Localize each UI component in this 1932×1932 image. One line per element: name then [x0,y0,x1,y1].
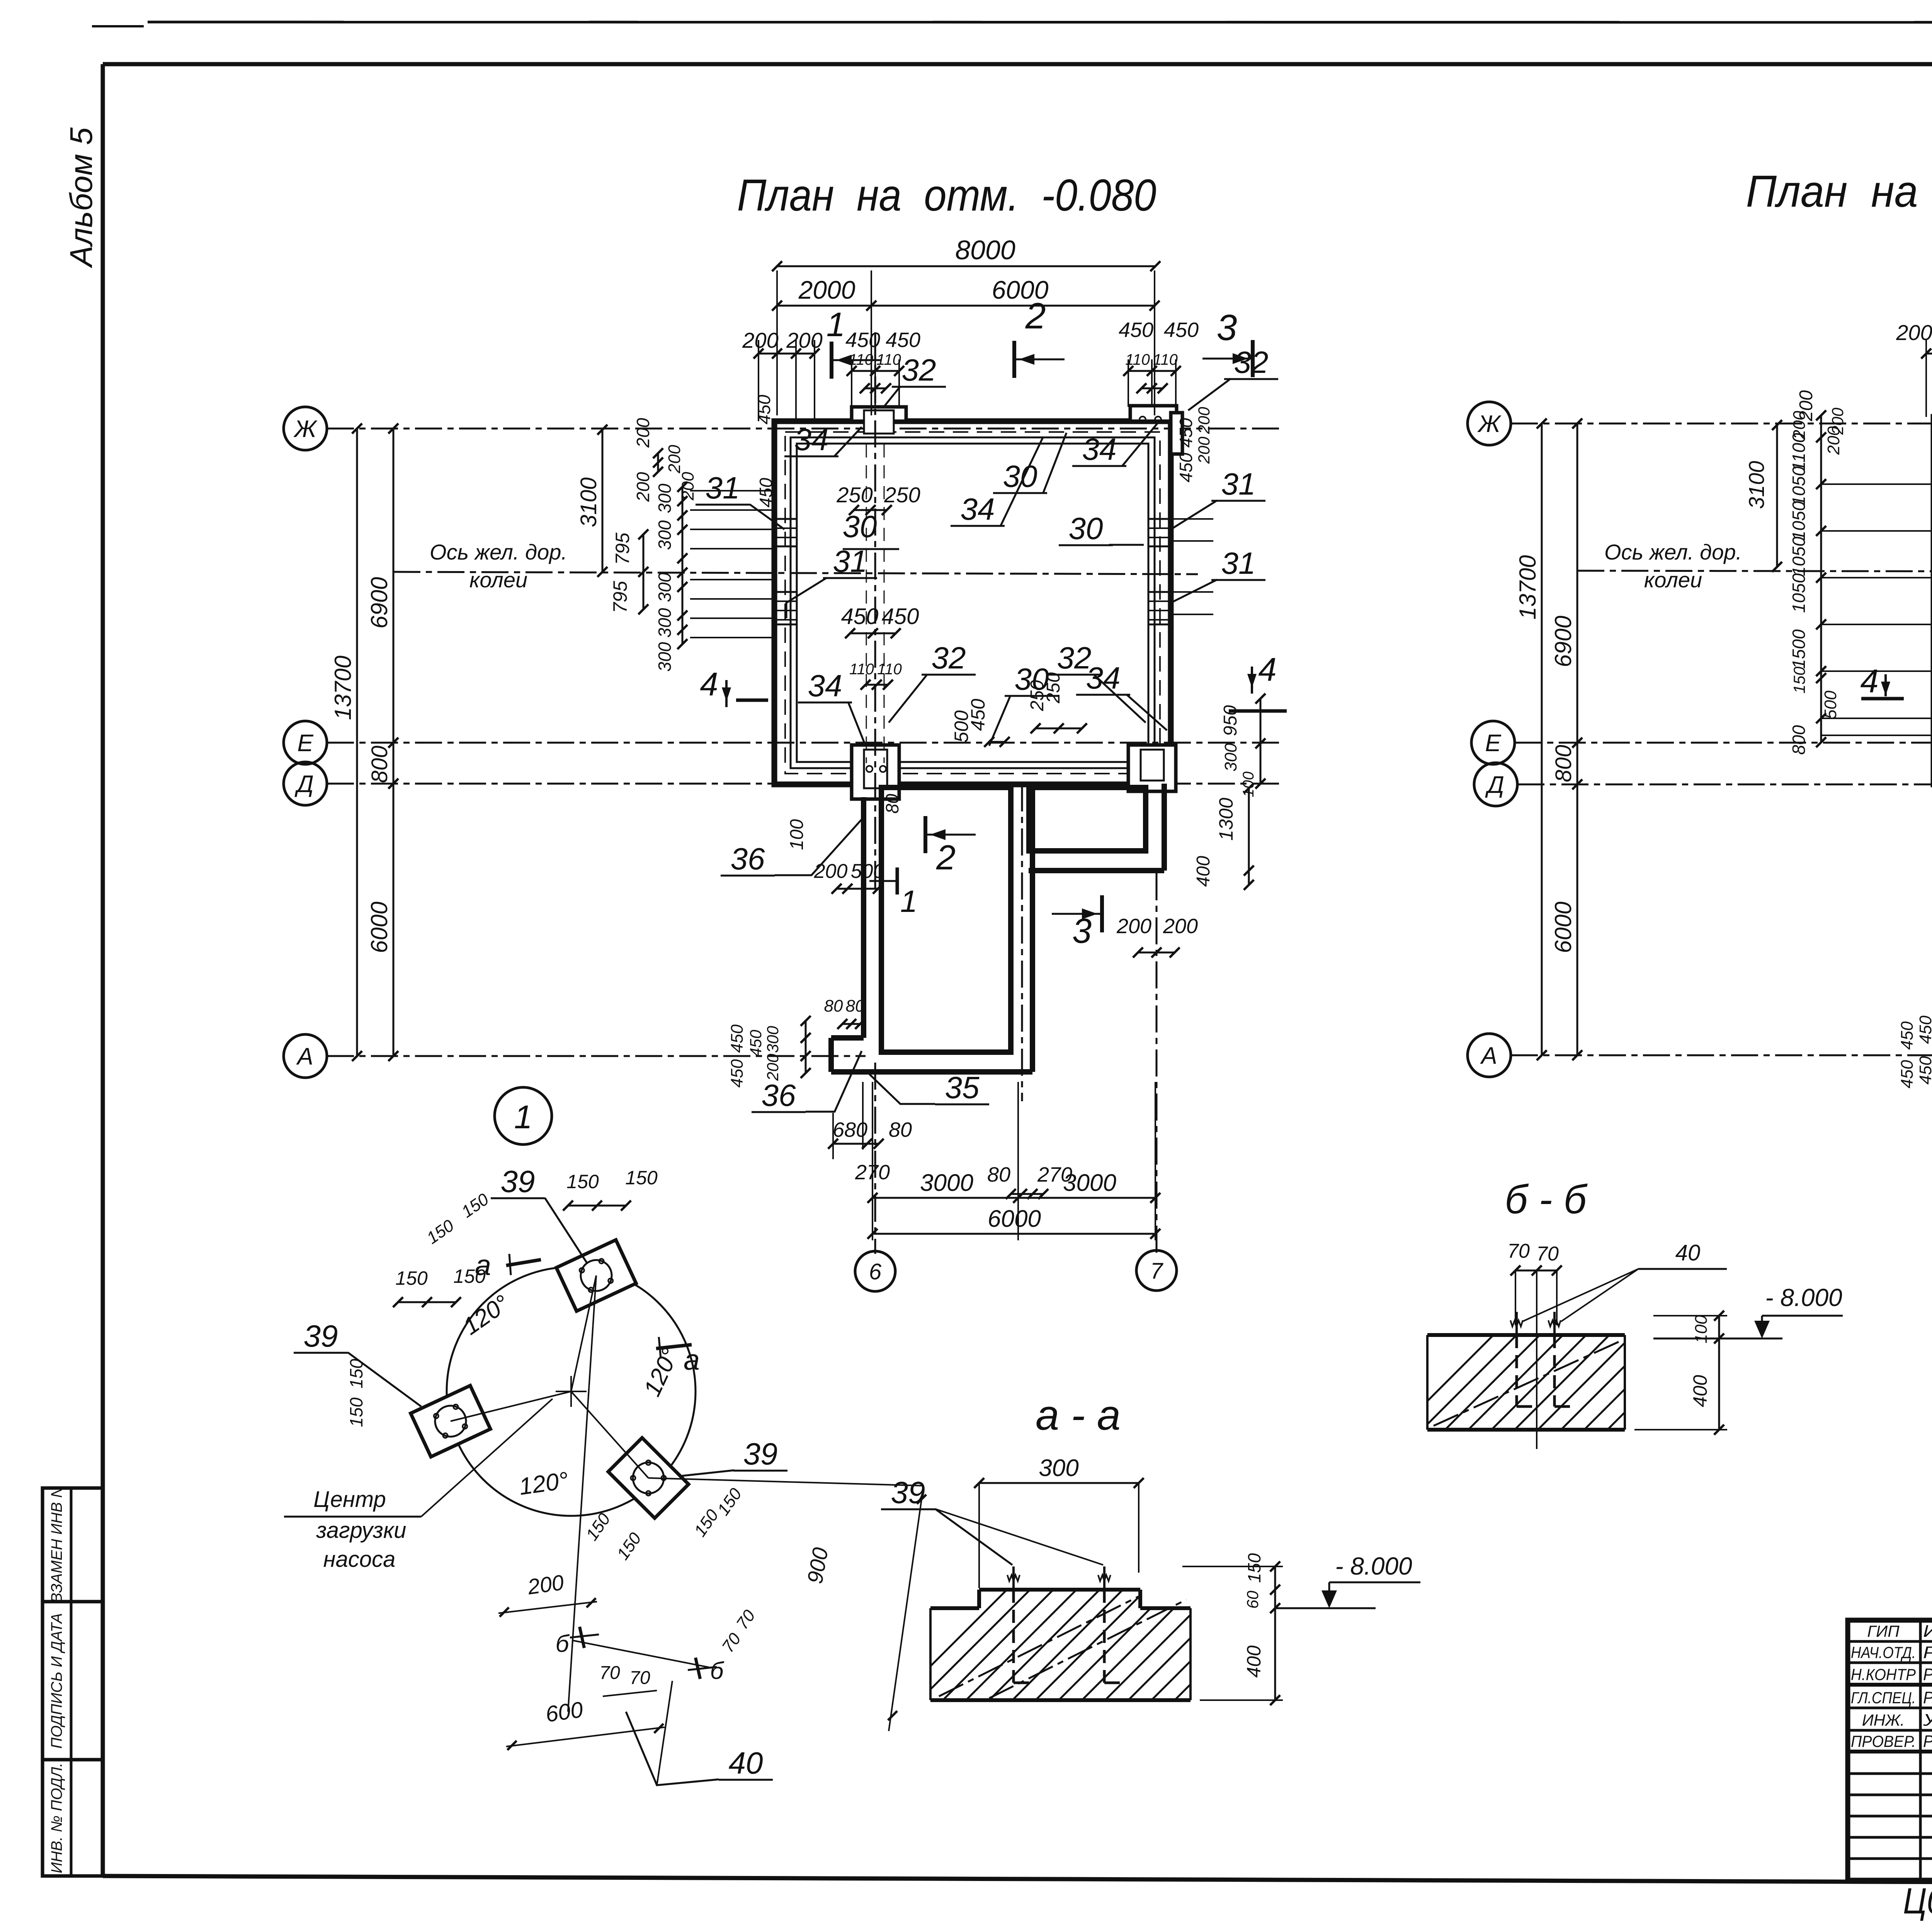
grid6 extension left [874,1063,876,1254]
aa leader2 [935,1509,1103,1565]
dim ticks top right plan [1926,353,1932,355]
svg-text:2000: 2000 [798,276,855,304]
svg-text:795: 795 [609,581,631,613]
pilaster hatch L1 [774,519,797,546]
dim 6000 bottom left [872,1233,1155,1235]
dim 3100 right [1776,425,1778,567]
grid axis Ж right [1468,402,1511,445]
pilaster hatch L2 [774,592,797,624]
svg-text:450: 450 [886,328,920,352]
svg-text:загрузки: загрузки [316,1518,406,1543]
bb bolt 2 [1553,1335,1556,1406]
dim 8000 left [777,265,1155,267]
dim 110 110 mid [866,684,888,686]
svg-text:300: 300 [655,483,675,513]
svg-text:1050: 1050 [1789,501,1809,541]
svg-text:ГЛ.СПЕЦ.: ГЛ.СПЕЦ. [1851,1689,1916,1707]
svg-text:36: 36 [731,842,765,876]
svg-text:200: 200 [1195,436,1213,464]
svg-text:450: 450 [967,699,989,731]
svg-text:РАШЕВСКИЙ: РАШЕВСКИЙ [1923,1664,1932,1684]
right leader lines left plan [1171,518,1213,520]
svg-text:6000: 6000 [988,1206,1041,1232]
svg-text:31: 31 [706,471,740,505]
dim 2000 6000 left [777,305,1155,307]
svg-text:1: 1 [514,1099,532,1136]
aa bolt 1 [1012,1590,1015,1683]
svg-text:ПРОВЕР.: ПРОВЕР. [1851,1732,1916,1750]
svg-text:34: 34 [1086,661,1121,695]
svg-text:34: 34 [808,668,842,703]
svg-text:34: 34 [794,422,829,457]
grid7 extension left [1156,873,1158,1254]
section 3 pit [1100,895,1104,932]
svg-text:150: 150 [1244,1553,1264,1583]
svg-text:39: 39 [304,1319,338,1353]
anchor plate right [608,1438,689,1518]
title block grid [1848,1620,1932,1880]
svg-text:500: 500 [1821,690,1840,719]
svg-text:110: 110 [877,661,902,678]
svg-text:3000: 3000 [920,1170,973,1196]
svg-text:110: 110 [1153,351,1178,368]
svg-text:80: 80 [824,997,843,1015]
svg-text:80: 80 [882,794,902,814]
svg-text:300: 300 [655,642,675,672]
svg-text:150: 150 [395,1267,428,1289]
svg-text:2: 2 [1025,296,1046,337]
svg-text:70: 70 [1507,1240,1530,1262]
left chain leader lines [690,490,774,492]
radial line 2 [451,1391,571,1421]
grid axis Е left [284,721,327,764]
svg-text:200: 200 [1116,915,1151,938]
svg-text:60: 60 [1243,1590,1262,1609]
svg-text:450: 450 [841,604,879,629]
svg-text:400: 400 [1689,1375,1711,1407]
svg-text:30: 30 [843,509,877,544]
anchor plate left [411,1386,490,1457]
svg-text:70: 70 [599,1663,620,1683]
svg-text:31: 31 [1221,546,1256,580]
dim 13700 left [356,429,358,1056]
pilaster hatch R1 [1148,519,1171,546]
svg-text:70: 70 [1536,1243,1559,1265]
bb dashdot [1434,1341,1621,1426]
aa dim column [1274,1566,1276,1700]
svg-text:450: 450 [754,395,774,424]
svg-text:600: 600 [544,1697,585,1727]
svg-text:31: 31 [833,544,867,578]
radial line 1 [571,1276,596,1391]
svg-text:13700: 13700 [330,656,356,720]
svg-text:34: 34 [1082,432,1117,466]
rail axis line left [393,572,1198,574]
dim 250 250 top opening [854,509,887,511]
svg-text:1050: 1050 [1789,466,1809,506]
pilaster hatch R2 [1148,592,1171,624]
bb vertical thin [1536,1270,1537,1449]
svg-text:1300: 1300 [1215,798,1237,840]
svg-text:План на отм. -3.000: План на отм. -3.000 [1746,166,1932,216]
svg-text:НАЧ.ОТД.: НАЧ.ОТД. [1851,1643,1916,1662]
svg-text:6900: 6900 [1550,616,1576,667]
svg-text:1500: 1500 [1789,629,1809,669]
svg-text:План на отм. -0.080: План на отм. -0.080 [737,170,1156,220]
svg-text:150: 150 [566,1171,599,1192]
svg-text:400: 400 [1243,1645,1265,1678]
page top edge dash left [92,25,144,27]
svg-text:300: 300 [764,1026,782,1053]
svg-text:1: 1 [900,884,918,918]
svg-text:150: 150 [625,1167,658,1189]
svg-text:Н.КОНТР: Н.КОНТР [1851,1665,1916,1684]
svg-text:450: 450 [756,478,776,507]
right pit dim line [1260,699,1262,784]
svg-text:1100: 1100 [1789,433,1809,471]
svg-text:Д: Д [1485,772,1504,798]
svg-text:4: 4 [1258,651,1276,688]
bb dim col [1718,1316,1720,1430]
svg-text:Ось жел. дор.: Ось жел. дор. [430,540,567,564]
section b marks [572,1640,709,1667]
dim 450 450 right top [1128,370,1176,372]
grid axis Д right [1474,763,1517,806]
leader 40 second [657,1681,672,1785]
dim 450 450 ticks left top [852,370,899,372]
svg-text:300: 300 [1221,743,1240,772]
dim 200 200 small left [657,453,659,472]
svg-text:30: 30 [1003,459,1037,493]
grid circle 6 left [855,1251,895,1291]
grid axis А left [284,1034,327,1078]
svg-text:800: 800 [1789,725,1809,755]
aa block outline [930,1606,979,1610]
svg-text:110: 110 [849,661,874,678]
svg-text:ИВАНОВА: ИВАНОВА [1923,1622,1932,1641]
svg-text:6900: 6900 [366,577,392,628]
svg-text:450: 450 [747,1029,765,1057]
grid axis Е right [1471,721,1515,764]
svg-text:795: 795 [612,532,633,565]
svg-text:200: 200 [526,1570,565,1599]
svg-text:450: 450 [1916,1015,1932,1044]
left stamp table divider h1 [43,1600,103,1604]
svg-text:200: 200 [764,1053,782,1081]
grid circle 7 left [1136,1250,1177,1291]
page top edge line [148,22,1932,22]
section a mark right [656,1345,692,1349]
dim 795 795 left [643,534,645,609]
bb block outline [1427,1333,1625,1337]
svg-text:450: 450 [1898,1021,1917,1050]
dim 80 270 right [1011,1193,1043,1195]
svg-text:- 8.000: - 8.000 [1335,1552,1412,1580]
dim 110 110 left top [865,388,886,389]
svg-text:32: 32 [932,641,966,675]
svg-text:32: 32 [902,353,936,387]
svg-text:450: 450 [1898,1060,1917,1088]
svg-text:150: 150 [346,1397,366,1427]
svg-text:250: 250 [884,483,920,507]
svg-text:Ж: Ж [293,416,318,442]
svg-text:450: 450 [1176,418,1196,447]
dim 200 200 pit right [1138,952,1175,954]
dim 450 450 mid left [850,633,896,634]
svg-text:А: А [1480,1043,1497,1069]
svg-text:3100: 3100 [576,477,601,527]
svg-text:3: 3 [1072,912,1092,951]
upper room walls left plan [774,421,1171,784]
svg-text:7: 7 [1150,1259,1164,1284]
svg-text:Ц00059-04: Ц00059-04 [1903,1881,1932,1922]
svg-text:1050: 1050 [1789,536,1809,576]
svg-text:200: 200 [742,328,778,352]
svg-text:6000: 6000 [366,901,392,953]
dim 6900-800-6000 left [393,429,395,1056]
svg-text:80: 80 [987,1163,1010,1186]
dim 200 200 top chain left [759,353,815,355]
svg-text:2: 2 [936,838,956,877]
pitch circle [447,1267,696,1516]
radial line 3 [571,1391,648,1478]
svg-text:500: 500 [851,860,884,883]
svg-text:30: 30 [1069,511,1103,546]
dim 300 chain left [682,487,684,644]
left stamp table box [43,1488,103,1876]
svg-text:РАШЕВСКИЙ: РАШЕВСКИЙ [1923,1687,1932,1707]
svg-text:ИНВ. № ПОДЛ.: ИНВ. № ПОДЛ. [48,1763,65,1873]
svg-text:40: 40 [729,1746,763,1780]
section mark 3 top [1251,340,1255,377]
svg-text:70: 70 [629,1668,650,1688]
svg-text:800: 800 [1551,745,1576,782]
svg-text:3100: 3100 [1744,461,1769,509]
svg-text:80: 80 [889,1118,912,1141]
svg-text:Ось жел. дор.: Ось жел. дор. [1604,540,1742,564]
dim 80 80 pit [842,1023,860,1025]
bb bolt 1 [1515,1335,1518,1406]
dim 13700 right [1541,423,1543,1055]
svg-text:300: 300 [1039,1455,1078,1481]
svg-text:200: 200 [814,860,848,883]
svg-text:200: 200 [679,472,697,501]
svg-text:300: 300 [655,520,675,550]
svg-text:ВЗАМЕН ИНВ N: ВЗАМЕН ИНВ N [48,1486,65,1603]
left stamp table divider v [70,1488,73,1876]
svg-text:6: 6 [869,1259,882,1284]
svg-text:450: 450 [1164,318,1199,342]
grid axis Д left [284,762,327,805]
svg-text:б - б: б - б [1505,1177,1588,1222]
svg-text:a: a [684,1344,700,1376]
dim 450 450 pit left [805,1021,807,1073]
svg-text:200: 200 [665,445,684,474]
svg-text:200: 200 [1796,390,1816,422]
dim 3100 left [602,430,604,572]
svg-text:31: 31 [1221,467,1256,501]
dim 150 150 left [398,1301,456,1303]
svg-text:3: 3 [1217,307,1237,348]
svg-text:Е: Е [297,730,313,757]
svg-text:200: 200 [633,418,653,448]
svg-text:450: 450 [728,1024,747,1053]
svg-text:Центр: Центр [313,1487,386,1512]
section mark 2 top [1012,341,1016,378]
extension lines top left plan [776,270,778,415]
svg-text:80: 80 [846,997,865,1015]
svg-text:ПОДПИСЬ И ДАТА: ПОДПИСЬ И ДАТА [48,1613,65,1749]
svg-text:4: 4 [700,666,718,703]
svg-text:ИНЖ.: ИНЖ. [1862,1711,1905,1729]
svg-text:450: 450 [1119,318,1153,342]
dim 200 500 [837,888,878,890]
rail axis line right [1577,571,1932,572]
svg-text:насоса: насоса [323,1547,396,1572]
center cross [556,1391,587,1392]
svg-text:200: 200 [633,472,653,502]
svg-text:б: б [710,1658,724,1684]
svg-text:3000: 3000 [1063,1170,1116,1196]
svg-text:13700: 13700 [1515,555,1541,620]
svg-text:200: 200 [1824,426,1843,455]
svg-text:800: 800 [367,746,392,783]
svg-text:39: 39 [891,1475,925,1510]
dim 6900-800-6000 right [1577,423,1578,1055]
svg-text:450: 450 [1176,452,1196,482]
dim 900 diag [889,1486,923,1731]
svg-text:1050: 1050 [1789,573,1809,613]
svg-text:35: 35 [945,1070,980,1105]
svg-text:300: 300 [655,572,675,602]
svg-text:- 8.000: - 8.000 [1765,1284,1842,1311]
svg-text:36: 36 [762,1078,796,1112]
svg-text:450: 450 [1916,1056,1932,1085]
svg-text:Е: Е [1485,730,1501,757]
detail circle 1 [495,1087,552,1145]
dim 250 250 mid-right [1036,728,1082,730]
dim chain 1050 right [1820,415,1822,742]
centerline top opening left [874,332,876,889]
svg-text:39: 39 [743,1437,778,1471]
svg-text:Д: Д [294,771,314,798]
svg-text:1: 1 [827,305,845,344]
svg-text:ГИП: ГИП [1867,1622,1900,1640]
svg-text:8000: 8000 [955,235,1015,265]
svg-text:300: 300 [655,608,675,638]
aa bolt 2 [1103,1590,1106,1683]
svg-text:200: 200 [1195,406,1213,434]
svg-text:450: 450 [882,604,919,629]
svg-text:200: 200 [1163,915,1198,938]
aa dashdot diag [939,1596,1140,1696]
svg-text:Альбом 5: Альбом 5 [64,127,99,269]
svg-text:30: 30 [1015,662,1049,696]
section a mark top [506,1260,541,1265]
svg-text:200: 200 [786,328,822,352]
svg-text:250: 250 [836,483,872,507]
svg-text:РАШЕВСКИЙ: РАШЕВСКИЙ [1923,1731,1932,1751]
dim 110 110 right top [1141,388,1163,389]
pit walls left plan [881,787,1011,1052]
anchor plate top [556,1240,636,1311]
left stamp table divider h2 [43,1758,103,1762]
svg-text:a: a [475,1249,491,1281]
svg-text:400: 400 [1193,856,1214,887]
dim 680 80 [833,1143,879,1145]
aa dim 300 [979,1482,1139,1484]
svg-text:100: 100 [1692,1315,1711,1344]
svg-text:a - a: a - a [1036,1391,1121,1439]
svg-text:450: 450 [728,1059,747,1088]
svg-text:А: А [296,1043,313,1070]
bb dim 70 70 [1515,1270,1557,1272]
section 1 pit [896,867,899,895]
svg-text:34: 34 [961,492,995,526]
dim 150 150 top [568,1205,626,1207]
svg-text:4: 4 [1860,663,1878,700]
svg-text:40: 40 [1675,1240,1701,1265]
svg-text:100: 100 [787,819,807,850]
svg-text:УДАЛОВА: УДАЛОВА [1923,1711,1932,1730]
grid axis А right [1468,1034,1511,1077]
svg-text:РЫБКИНА: РЫБКИНА [1923,1643,1932,1662]
section mark 1 top [830,342,833,379]
grid axis Ж left [284,407,327,450]
dim 3000 3000 left [872,1197,1155,1199]
svg-text:39: 39 [501,1164,535,1199]
svg-text:6000: 6000 [1550,901,1576,953]
svg-text:б: б [556,1631,570,1657]
pit centerline v left [1021,784,1023,1101]
svg-text:950: 950 [1220,705,1241,736]
svg-text:Ж: Ж [1477,411,1502,437]
svg-text:150: 150 [1790,666,1808,694]
section 2 pit [923,816,927,853]
svg-text:150: 150 [346,1359,366,1388]
right plan left leaders [1821,483,1932,485]
bottom extension lines left plan [872,1082,873,1240]
